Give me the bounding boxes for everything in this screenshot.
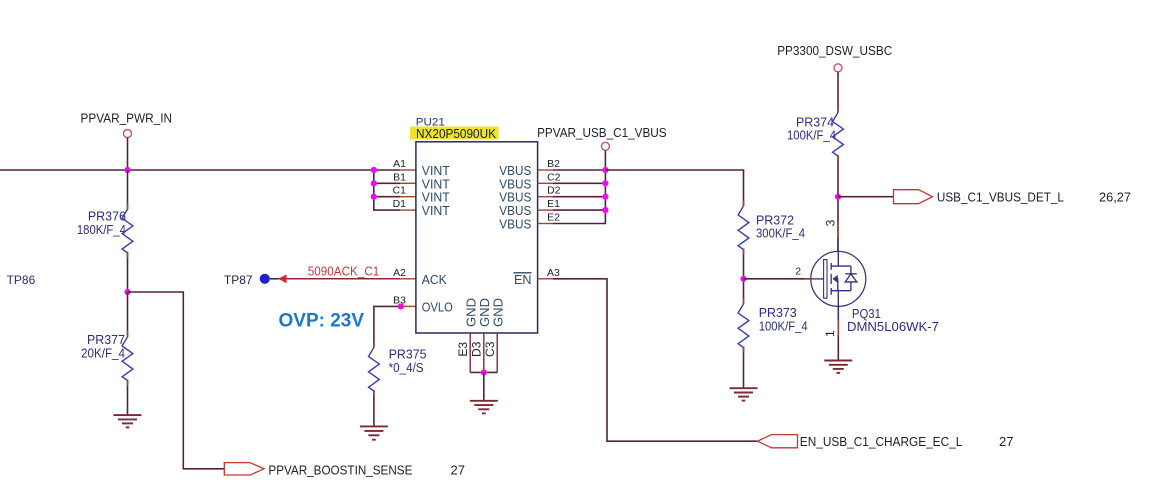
pin B3 stub (401, 305, 416, 307)
svg-text:C3: C3 (483, 341, 497, 357)
wire: EN net to pennant (553, 279, 758, 441)
wire: PR376 to junction (127, 252, 129, 292)
IC PU21 body (416, 142, 538, 333)
resistor PR375 (369, 348, 380, 392)
svg-text:26,27: 26,27 (1099, 190, 1131, 205)
wire: PR373 to ground (743, 347, 745, 389)
pin 3 lead segment (red) (837, 222, 839, 238)
svg-text:VBUS: VBUS (499, 217, 531, 232)
wire: ACK net (red) (270, 278, 278, 280)
pin A1 stub (400, 169, 416, 171)
ground (under PR377) (114, 415, 142, 427)
pin E2 stub (538, 223, 553, 225)
svg-text:A3: A3 (547, 267, 560, 279)
junction: E1 (602, 207, 608, 213)
svg-text:100K/F_4: 100K/F_4 (759, 318, 808, 333)
svg-text:20K/F_4: 20K/F_4 (81, 345, 125, 360)
terminal PP3300_DSW_USBC (834, 64, 842, 72)
highlight NX20P5090UK (410, 127, 499, 140)
overline for EN (514, 272, 532, 274)
pin C3 stub (GND) (496, 333, 498, 372)
junction: OVLO node (398, 303, 404, 309)
arrow: ACK direction (278, 274, 286, 283)
wire: tap to PR377 (127, 292, 129, 337)
svg-text:B2: B2 (547, 158, 560, 170)
svg-text:PPVAR_USB_C1_VBUS: PPVAR_USB_C1_VBUS (537, 125, 667, 140)
svg-text:PP3300_DSW_USBC: PP3300_DSW_USBC (777, 43, 892, 58)
wire: VBUS_DET branch (838, 196, 894, 198)
wire: source to ground (837, 306, 839, 360)
port USB_C1_VBUS_DET_L (output, right-pointing) (894, 190, 933, 204)
svg-text:TP86: TP86 (7, 273, 36, 287)
svg-text:300K/F_4: 300K/F_4 (756, 226, 805, 241)
transistor PQ31 (N-MOSFET with body diode) (810, 251, 866, 306)
svg-text:D2: D2 (547, 185, 561, 197)
wire: B2 tie (553, 169, 605, 171)
svg-text:EN_USB_C1_CHARGE_EC_L: EN_USB_C1_CHARGE_EC_L (800, 434, 963, 449)
svg-text:OVP: 23V: OVP: 23V (279, 311, 365, 332)
svg-text:NX20P5090UK: NX20P5090UK (416, 126, 496, 141)
pin 2 lead segment (804, 278, 811, 280)
wire: PR375 to ground (373, 390, 375, 426)
ground (under PU21) (470, 401, 498, 414)
svg-text:C1: C1 (393, 185, 407, 197)
pin 1 lead segment (837, 306, 839, 319)
wire: C2 tie (553, 182, 605, 184)
svg-text:OVLO: OVLO (422, 300, 453, 315)
pin E3 stub (GND) (469, 333, 471, 372)
svg-text:2: 2 (795, 266, 801, 278)
wire: A1-D1 pin tie vertical (374, 170, 400, 210)
resistor pin stubs (red terminal segments) (128, 107, 839, 397)
wire: PR374 to drain (837, 155, 839, 252)
junction: divider tap (124, 289, 130, 295)
svg-text:5090ACK_C1: 5090ACK_C1 (308, 264, 380, 279)
svg-text:100K/F_4: 100K/F_4 (787, 128, 836, 143)
pin A3 stub (EN) (538, 278, 553, 280)
wire: main PPVAR_PWR_IN horizontal bus (0, 169, 374, 171)
wire: bus down to PR376 (127, 170, 129, 209)
pin D2 stub (538, 196, 553, 198)
svg-text:27: 27 (999, 434, 1013, 449)
junction: C1 (371, 194, 377, 200)
testpoint TP87 dot (260, 274, 270, 284)
wire: OVLO to PR375 (374, 306, 401, 347)
resistor PR377 (122, 337, 133, 381)
wire: GND tie (470, 371, 497, 373)
resistor PR374 (833, 113, 844, 157)
pin E1 stub (538, 209, 553, 211)
junction: GND tie (481, 369, 487, 375)
ground (under PQ31) (824, 361, 852, 373)
svg-text:D3: D3 (469, 341, 483, 357)
svg-text:*0_4/S: *0_4/S (389, 360, 424, 375)
svg-text:PPVAR_PWR_IN: PPVAR_PWR_IN (81, 111, 173, 126)
pin B2 stub (538, 169, 553, 171)
junction: D2 (602, 194, 608, 200)
svg-text:E2: E2 (547, 212, 560, 224)
resistor PR373 (738, 304, 749, 348)
svg-text:E1: E1 (547, 198, 560, 210)
svg-text:VINT: VINT (422, 203, 450, 218)
pin C2 stub (538, 182, 553, 184)
svg-text:ACK: ACK (422, 272, 447, 287)
svg-text:1: 1 (823, 330, 837, 337)
svg-text:D1: D1 (393, 198, 407, 210)
svg-text:EN: EN (514, 272, 532, 287)
svg-text:B1: B1 (393, 171, 406, 183)
pin B1 stub (400, 182, 416, 184)
svg-text:PPVAR_BOOSTIN_SENSE: PPVAR_BOOSTIN_SENSE (268, 462, 412, 477)
svg-text:TP87: TP87 (224, 273, 253, 287)
port EN_USB_C1_CHARGE_EC_L (input, left-pointing) (758, 435, 798, 448)
ground (under PR375) (360, 426, 388, 439)
junction: PPVAR_PWR_IN / bus (124, 167, 130, 173)
resistor PR372 (738, 206, 749, 249)
wire: B1 tie (374, 182, 400, 184)
svg-text:180K/F_4: 180K/F_4 (77, 222, 126, 237)
wire: VBUS tie vertical (553, 150, 605, 223)
svg-text:3: 3 (824, 219, 838, 226)
svg-text:27: 27 (451, 462, 465, 477)
junction: C2 (602, 180, 608, 186)
wire: D2 tie (553, 196, 605, 198)
wire: A1 tie (374, 169, 400, 171)
svg-text:E3: E3 (456, 342, 470, 357)
svg-text:GND: GND (490, 298, 505, 327)
wire: PR372 to gate node (743, 249, 745, 305)
svg-text:A1: A1 (393, 158, 406, 170)
junction: gate node (740, 276, 746, 282)
wire: VBUS bus to PR372 (605, 170, 743, 206)
resistor PR376 (122, 209, 133, 252)
svg-text:DMN5L06WK-7: DMN5L06WK-7 (847, 319, 939, 334)
junction: A1 (371, 167, 377, 173)
pin C1 stub (400, 196, 416, 198)
svg-text:A2: A2 (393, 267, 406, 279)
pin A2 stub (400, 278, 416, 280)
junction: B1 (371, 180, 377, 186)
svg-text:USB_C1_VBUS_DET_L: USB_C1_VBUS_DET_L (937, 190, 1064, 205)
wire: PPVAR_PWR_IN drop to bus (127, 138, 129, 170)
pin D3 stub (GND) (483, 333, 485, 372)
terminal PPVAR_USB_C1_VBUS (601, 142, 609, 150)
junction: VBUS_DET node (835, 194, 841, 200)
svg-text:C2: C2 (547, 171, 561, 183)
ground (under PR373) (730, 388, 758, 400)
wire: C1 tie (374, 196, 400, 198)
wire: PP3300 to PR374 (837, 72, 839, 113)
terminal PPVAR_PWR_IN (124, 130, 132, 138)
wire: PR377 to ground (127, 380, 129, 416)
svg-text:B3: B3 (393, 294, 406, 306)
wire: GND tie to ground (483, 372, 485, 400)
port PPVAR_BOOSTIN_SENSE (224, 463, 264, 475)
junction: B2 (602, 167, 608, 173)
wire: gate net (744, 278, 811, 280)
wire: tap branch right (128, 292, 225, 469)
wire: E1 tie (553, 209, 605, 211)
pin D1 stub (400, 209, 416, 211)
